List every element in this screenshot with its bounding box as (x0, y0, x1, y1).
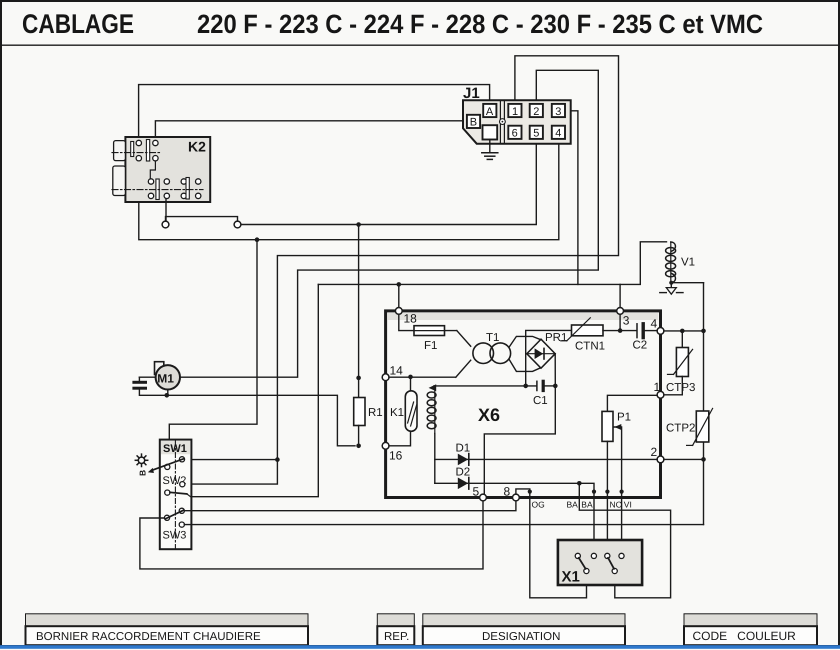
junction NO at X6 edge (605, 490, 609, 494)
svg-text:CABLAGE: CABLAGE (22, 9, 134, 39)
wire X6-14 junction to K1 (410, 377, 412, 391)
capacitor C2 (633, 324, 658, 352)
X6 terminal 8 (504, 485, 520, 501)
svg-text:16: 16 (389, 449, 403, 463)
switch assembly box SW1-SW3 (160, 440, 192, 550)
svg-text:CTP2: CTP2 (666, 423, 695, 435)
title models 220F-235C (197, 9, 763, 39)
X6 terminal 16 (382, 442, 402, 462)
inductor V1 (666, 242, 695, 283)
svg-text:CTN1: CTN1 (575, 341, 605, 353)
svg-text:F1: F1 (424, 340, 437, 352)
K2 bridge terminals (162, 217, 241, 228)
svg-text:PR1: PR1 (545, 332, 567, 344)
junction K1 top (408, 375, 413, 380)
wire X6-2 to CTP2 rail (664, 458, 704, 460)
sun symbol (135, 454, 147, 466)
X6 terminal 4 (651, 317, 664, 335)
box X6 (386, 311, 661, 498)
svg-text:T1: T1 (486, 332, 499, 344)
wire coil bottom to D1 D2 (434, 434, 436, 484)
wire X6-4 to CTP rails (664, 330, 704, 332)
X6 terminal 3 (617, 308, 630, 328)
thermistor CTP3 (666, 331, 695, 394)
J1 pin 6 (508, 126, 521, 140)
svg-text:6: 6 (512, 128, 518, 140)
wire SW3 top contact to X6-8 (184, 501, 516, 511)
wire X6-14 to T1 primary (389, 360, 471, 377)
svg-text:14: 14 (390, 364, 404, 378)
wire D1 to X6-2 (435, 458, 657, 460)
junction CTP2 bottom (701, 457, 706, 462)
svg-text:18: 18 (404, 312, 418, 326)
connector J1 (463, 85, 571, 144)
wire K2 contact to bridge terminal (165, 199, 167, 222)
junction C1 right / PR1 (553, 384, 558, 389)
connector X1 (558, 540, 642, 586)
svg-text:A: A (486, 106, 494, 118)
svg-text:C2: C2 (633, 340, 648, 352)
svg-text:SW1: SW1 (163, 443, 187, 455)
title separator line (2, 44, 838, 46)
wire K2 pin to J1 pin B (155, 121, 466, 141)
svg-text:4: 4 (555, 128, 561, 140)
junction C1 left / CTN1 (523, 384, 528, 389)
X6 terminal 5 (473, 485, 487, 501)
ground (J1) (482, 140, 498, 160)
svg-text:4: 4 (651, 317, 658, 331)
svg-text:X6: X6 (478, 405, 500, 425)
svg-text:X1: X1 (562, 569, 580, 586)
svg-text:BA: BA (581, 500, 593, 510)
fuse F1 (414, 326, 457, 352)
wire J1 pin 5 to K2 bridge and X6-14 (241, 140, 536, 225)
title CABLAGE (22, 9, 134, 39)
X6 terminal 14 (382, 364, 403, 381)
svg-text:VI: VI (624, 500, 632, 510)
wire branch to X6 terminal 18 (398, 284, 400, 307)
wire K1 bottom to X6-16 rail (389, 431, 411, 446)
svg-text:1: 1 (512, 106, 518, 118)
wire X6-3 to node (619, 314, 621, 330)
J1 pin 4 (552, 126, 565, 140)
switch SW3 (164, 508, 184, 527)
capacitor C1 (533, 381, 555, 407)
wire K2 pin to J1 pin A (139, 85, 490, 141)
bridge rectifier PR1 (527, 332, 568, 368)
svg-text:J1: J1 (463, 85, 480, 102)
svg-text:V1: V1 (681, 257, 695, 269)
wire X6-8 jog to OG (516, 489, 587, 598)
wire T1 secondary to PR1 (510, 336, 542, 371)
J1 pin B (467, 115, 480, 129)
wire PR1 minus via CTN1 vertical (526, 330, 572, 386)
wire J1 pin 1 to SW1 output (277, 56, 618, 460)
svg-text:P1: P1 (617, 412, 631, 424)
wire M1 bottom to R1 and X6-16 (167, 390, 355, 446)
wire X6-18 to F1 (399, 314, 414, 330)
svg-text:R1: R1 (368, 407, 383, 419)
motor M1 (155, 362, 181, 390)
svg-text:220 F - 223 C - 224 F - 228: 220 F - 223 C - 224 F - 228 C - 230 F - … (197, 9, 763, 39)
svg-text:K1: K1 (390, 407, 404, 419)
junction V1 bottom (669, 281, 673, 285)
wire PR1 plus to X6-5 (484, 354, 555, 494)
svg-text:BORNIER RACCORDEMENT CHAUDIERE: BORNIER RACCORDEMENT CHAUDIERE (36, 631, 261, 643)
svg-text:REP.: REP. (384, 631, 409, 643)
wire P1 bottom (NO) to X1 (606, 441, 608, 553)
junction pin4 net (255, 237, 260, 242)
J1 pin 1 (508, 104, 521, 118)
J1 ground pin (483, 125, 498, 139)
X1 switch 2 (605, 553, 624, 573)
legend CODE COULEUR (684, 614, 817, 645)
wire J1 pin 3 net to X6-18, SW2 and V1 (565, 111, 578, 285)
svg-text:BA: BA (567, 500, 579, 510)
junction SW1 output (275, 457, 280, 462)
J1 pin 3 (552, 104, 565, 118)
junction OG top (528, 490, 532, 494)
V1 discharge arrow symbol (660, 283, 683, 295)
wire SW1 output (186, 459, 277, 461)
X6 terminal 18 (395, 308, 417, 326)
junction node 3 (618, 328, 623, 333)
wire CTP2 rail (right vertical) (703, 283, 705, 411)
blue base line (0, 645, 840, 649)
svg-text:K2: K2 (188, 139, 206, 155)
X6 terminal 2 (651, 445, 664, 463)
potentiometer P1 (602, 395, 657, 441)
junction BA2 at X6 edge (592, 490, 596, 494)
svg-text:5: 5 (533, 128, 539, 140)
X1 switch 1 (575, 553, 596, 573)
X6 terminal 1 (654, 380, 664, 398)
svg-text:1: 1 (654, 380, 661, 394)
relay K1 (390, 391, 417, 432)
svg-text:DESIGNATION: DESIGNATION (482, 631, 560, 643)
thermistor CTP2 (666, 408, 713, 445)
J1 pin A (483, 104, 496, 118)
junction R1 top (356, 376, 361, 381)
switch SW2 (165, 482, 191, 497)
svg-text:M1: M1 (157, 371, 174, 385)
svg-text:8: 8 (504, 485, 511, 499)
svg-text:D1: D1 (456, 443, 471, 455)
wire F1 to T1 primary (457, 331, 471, 347)
junction CTP2 rail / X6-4 (701, 329, 706, 334)
transformer T1 (473, 332, 511, 364)
diode D1 (456, 443, 471, 466)
svg-text:SW3: SW3 (163, 530, 187, 542)
junction R1 bottom (356, 444, 361, 449)
svg-text:B: B (470, 117, 477, 129)
switch SW1 (148, 457, 185, 473)
svg-text:2: 2 (533, 106, 539, 118)
legend BORNIER RACCORDEMENT CHAUDIERE (26, 614, 309, 645)
wire J1 pin 4 to K2 and SW1 gate (139, 140, 559, 240)
svg-text:5: 5 (473, 485, 480, 499)
relay coil K1 (427, 384, 436, 433)
legend DESIGNATION (423, 614, 625, 645)
svg-text:D2: D2 (456, 467, 471, 479)
svg-text:NO: NO (610, 500, 623, 510)
P1 wiper arrow to VI wire (614, 424, 634, 553)
wire SW3 bottom contact to CTP2 rail (184, 524, 703, 526)
svg-text:3: 3 (623, 314, 630, 328)
legend REP. (377, 614, 414, 645)
resistor R1 (354, 378, 383, 446)
junction M1 bottom (165, 393, 170, 398)
wire CTN1 to node 3/C2 (603, 330, 636, 332)
wire SW3 input to X6-5 loop (140, 501, 483, 569)
svg-text:CODE COULEUR: CODE COULEUR (693, 629, 797, 643)
svg-text:3: 3 (555, 106, 561, 118)
svg-text:C1: C1 (533, 395, 548, 407)
junction D2 / BA1 (577, 481, 582, 486)
wire branch to R1 / X6 terminal 14 (358, 225, 360, 378)
junction pin3 net / 18 (397, 282, 402, 287)
junction VI at X6 edge (620, 490, 624, 494)
thermistor CTN1 (561, 318, 605, 353)
svg-text:B: B (138, 470, 148, 476)
J1 pin 5 (530, 126, 543, 140)
svg-text:2: 2 (651, 445, 658, 459)
wire CTP3 bottom to X6-1 (664, 377, 682, 395)
wire D2 output (435, 483, 594, 553)
diode D2 (456, 467, 471, 490)
wire BA1 branch to X1 bar (579, 483, 670, 598)
svg-text:OG: OG (532, 500, 545, 510)
junction pin5 net (356, 222, 361, 227)
wire SW1 node to SW2 contact (185, 460, 277, 485)
J1 pin 2 (530, 104, 543, 118)
wire J1 pin 2 to M1 (180, 70, 598, 377)
wire C1 rail (434, 385, 536, 387)
wire V1 bottom to CTP2 rail (671, 282, 703, 284)
capacitor at M1 (134, 377, 165, 395)
wire branch to SW1 input (169, 240, 257, 463)
svg-text:CTP3: CTP3 (666, 382, 695, 394)
junction CTP3 top (680, 329, 685, 334)
relay K2 (112, 137, 210, 202)
